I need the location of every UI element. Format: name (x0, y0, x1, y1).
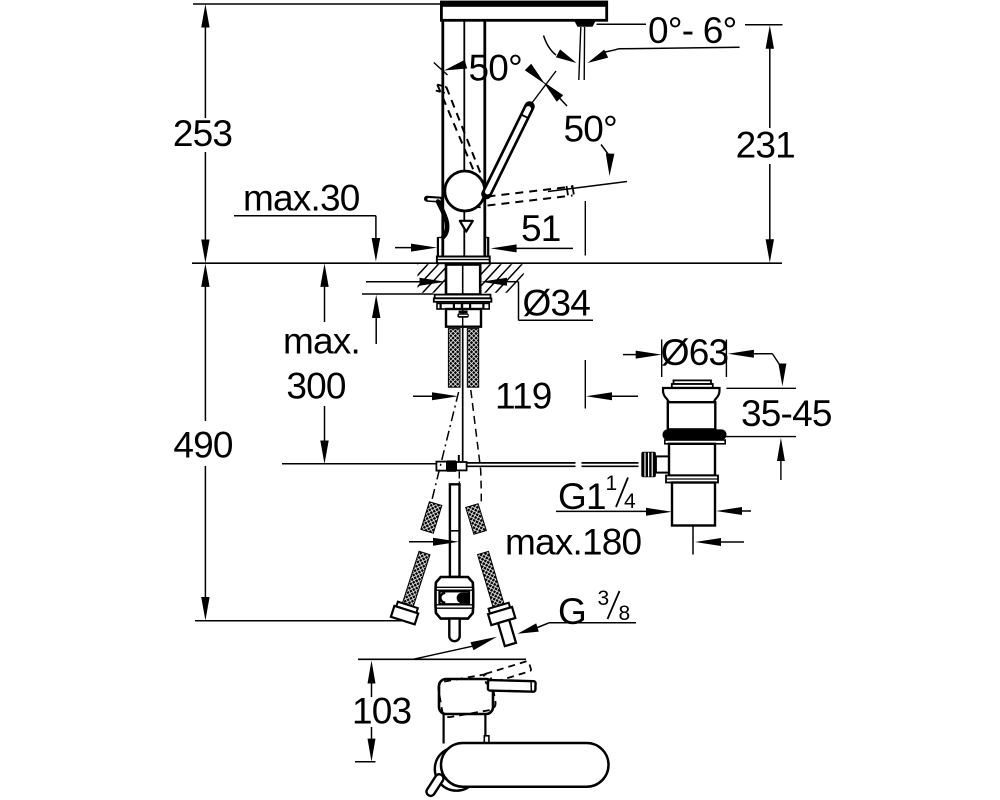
svg-text:50°: 50° (564, 109, 618, 150)
svg-text:50°: 50° (469, 48, 523, 89)
bottom view aerator nub (484, 736, 489, 743)
mounting block with screw (446, 309, 481, 327)
dimension 103 (352, 661, 411, 762)
faucet body column (438, 20, 488, 256)
svg-text:Ø34: Ø34 (523, 283, 591, 324)
angle 50 lower (543, 82, 617, 177)
joint ring (666, 476, 718, 483)
svg-text:max.: max. (283, 321, 360, 362)
svg-text:35-45: 35-45 (741, 393, 832, 434)
dimension max.300 (282, 263, 449, 464)
knurled knob (641, 452, 656, 477)
pull rod upper (462, 327, 464, 461)
dimension 35-45 (715, 354, 832, 480)
svg-text:253: 253 (173, 113, 232, 154)
bottom view back line (358, 658, 526, 660)
bottom view pull rod tube (425, 773, 445, 798)
lip (665, 440, 725, 444)
dimension diameter 63 (623, 332, 772, 377)
handle dashed position right (450, 182, 627, 208)
drain pull hook on body left (427, 199, 447, 237)
triangle marker below pivot (460, 221, 473, 232)
svg-text:max.30: max.30 (243, 178, 360, 219)
svg-text:103: 103 (352, 691, 411, 732)
svg-text:119: 119 (495, 376, 552, 417)
svg-text:51: 51 (521, 208, 561, 249)
washers (434, 295, 492, 309)
dimension max.180 (409, 522, 744, 563)
bottom view handle block solid (439, 679, 493, 714)
dashed hose stub right (466, 390, 487, 534)
svg-text:0°- 6°: 0°- 6° (648, 10, 737, 51)
hatching right of shank (463, 263, 534, 295)
dashed hose stub left (421, 392, 459, 533)
pop-up rod horizontal (467, 463, 639, 466)
angle 0-6 annotation (544, 24, 740, 63)
bottom view lever dashed rotated (483, 661, 531, 685)
wire top extension line (193, 3, 441, 5)
bottom view lever solid (488, 680, 536, 692)
svg-text:490: 490 (173, 425, 233, 466)
drain pop-up waste assembly (641, 380, 726, 525)
bottom view handle block dashed rotated (437, 673, 496, 718)
bottom view body connectors (443, 714, 445, 744)
dimension 253 (173, 4, 232, 263)
svg-text:1: 1 (606, 472, 618, 495)
svg-text:Ø63: Ø63 (661, 332, 729, 373)
svg-text:8: 8 (619, 602, 631, 625)
bottom view stadium outline (441, 743, 609, 787)
counter deck line (192, 262, 782, 264)
dimension 119 (413, 360, 638, 417)
aerator (574, 20, 596, 27)
dimension 231 (736, 25, 795, 263)
dimension 490 (173, 263, 409, 620)
angle 50 upper (434, 48, 556, 106)
coupler adjuster (435, 577, 473, 641)
hose lower left with nut (391, 549, 437, 624)
upper body (668, 402, 716, 429)
tailpipe (672, 483, 715, 526)
dimension G1 1/4 (556, 472, 751, 517)
hatching left of shank (390, 263, 461, 295)
lower body (669, 444, 715, 476)
pivot circle (445, 171, 485, 211)
svg-text:3: 3 (598, 587, 610, 610)
spout (440, 1, 608, 20)
flange (663, 388, 720, 402)
knob connector (656, 456, 671, 472)
dimension max.30 (234, 178, 434, 345)
svg-text:4: 4 (624, 490, 636, 513)
svg-text:G: G (558, 591, 586, 632)
supply hoses braided vertical (448, 329, 478, 388)
svg-text:231: 231 (736, 125, 795, 166)
rod junction block (436, 455, 466, 472)
handle solid (487, 107, 530, 195)
rod lower tube (450, 472, 460, 577)
bottom view rosette circle (435, 747, 478, 790)
water stream (579, 27, 581, 80)
o-ring (663, 429, 727, 440)
handle dashed position up-left (436, 85, 481, 176)
dimension diameter 34 (366, 278, 593, 324)
plug cap (674, 380, 712, 384)
hose lower right with nut and tube (471, 549, 522, 648)
label G 3/8 (413, 587, 636, 659)
base plate (437, 257, 490, 264)
svg-text:300: 300 (286, 366, 346, 407)
svg-text:max.180: max.180 (505, 522, 642, 563)
mounting nut (446, 265, 480, 295)
dimension 51 (395, 201, 585, 256)
